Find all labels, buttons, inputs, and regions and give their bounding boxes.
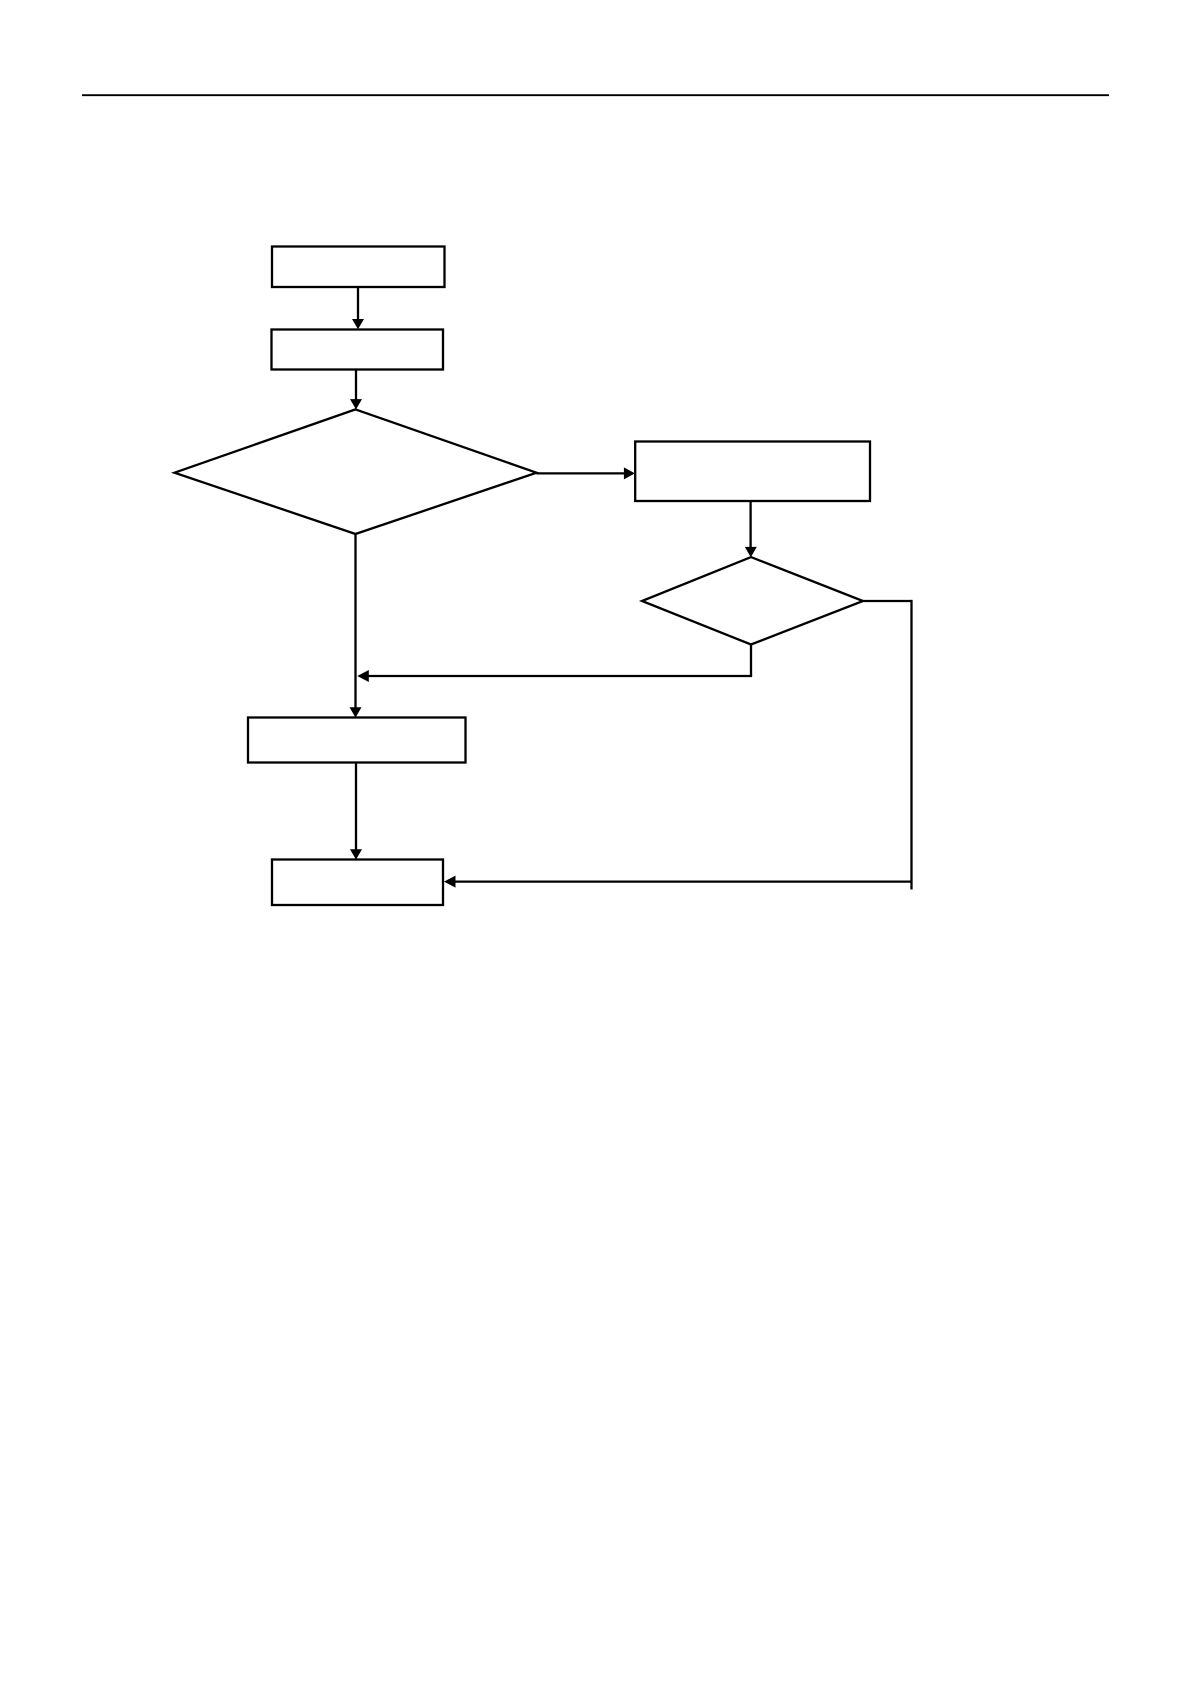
process box B3 <box>248 718 466 763</box>
right rail vertical wire <box>910 600 912 890</box>
arrow D2 loop back left to main line <box>357 670 752 682</box>
wire D2 right vertex to right rail <box>863 600 912 602</box>
header rule <box>82 94 1109 96</box>
process box B2 <box>272 330 444 370</box>
process box B1 (top) <box>272 247 445 288</box>
process box B4 (bottom) <box>272 860 443 906</box>
arrow B2 to decision D1 <box>350 370 362 410</box>
arrow B5 to decision D2 <box>745 501 757 557</box>
arrow right rail into B4 <box>444 876 912 888</box>
arrow D1 to box B5 (right branch) <box>537 467 635 479</box>
arrow B1 to B2 <box>352 287 364 330</box>
decision diamond D1 <box>175 409 537 534</box>
process box B5 (right) <box>635 442 870 502</box>
decision diamond D2 <box>642 557 863 644</box>
arrow B3 to box B4 <box>350 763 362 860</box>
wire D2 bottom vertex down <box>750 645 752 677</box>
arrow D1 bottom to box B3 <box>350 534 362 718</box>
